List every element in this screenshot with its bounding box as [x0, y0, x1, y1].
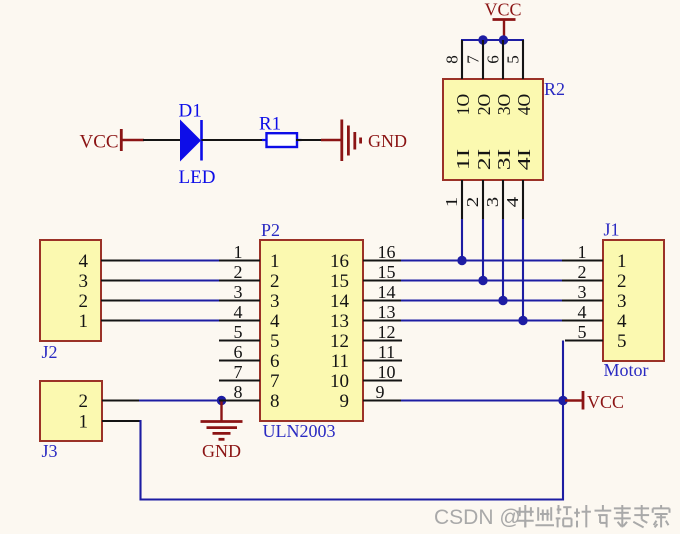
svg-text:3O: 3O: [494, 94, 514, 116]
svg-text:3: 3: [617, 291, 627, 312]
junction P2.8 / J3.2 / GND: [217, 396, 226, 405]
R2 pin 3 (bottom stub): [502, 180, 504, 219]
R2 pin name 1I: [453, 149, 473, 171]
svg-text:7: 7: [270, 371, 280, 392]
P2 pin name 5 (inside): [270, 331, 280, 352]
svg-text:6: 6: [484, 55, 503, 64]
P2 pin number 11 (outside): [378, 342, 395, 362]
P2 pin name 14 (inside): [330, 291, 350, 312]
J3 pin name 1: [79, 411, 89, 432]
svg-text:1O: 1O: [453, 94, 473, 116]
R2 pin name 4I: [514, 149, 534, 171]
J1 pin 5 stub: [565, 339, 603, 341]
svg-text:8: 8: [234, 382, 243, 402]
R2 pin name 3I: [494, 149, 514, 171]
wire VCC to D1 anode: [143, 139, 181, 141]
junction R2 pin 2 net: [478, 276, 487, 285]
svg-text:1I: 1I: [453, 149, 473, 171]
junction at R2 pin 7: [478, 35, 487, 44]
svg-text:2: 2: [270, 271, 280, 292]
P2 pin number 1 (outside): [234, 242, 243, 262]
watermark text (CJK glyphs approximated): [517, 505, 670, 527]
power port VCC (top, net VCC): [484, 0, 521, 40]
svg-text:1: 1: [617, 251, 627, 272]
svg-text:14: 14: [378, 282, 396, 302]
P2 pin name 2 (inside): [270, 271, 280, 292]
connector J1 body: [603, 240, 664, 361]
R2 pin 1 (bottom stub): [461, 180, 463, 219]
J1 pin 2 stub: [562, 279, 603, 281]
J1 pin number 3 (outside): [578, 282, 587, 302]
P2 pin number 12 (outside): [378, 322, 396, 342]
svg-text:VCC: VCC: [484, 0, 521, 20]
svg-text:6: 6: [234, 342, 243, 362]
svg-text:GND: GND: [368, 131, 407, 151]
wire from R2 pin 3 down to net row: [502, 219, 504, 301]
P2 pin name 9 (inside): [340, 391, 350, 412]
J1 pin name 3 (inside): [617, 291, 627, 312]
svg-text:2: 2: [234, 262, 243, 282]
svg-text:4: 4: [79, 251, 89, 272]
P2 pin number 4 (outside): [234, 302, 243, 322]
P2 left stub pin 1: [219, 259, 260, 261]
J1 pin 1 stub: [562, 259, 603, 261]
P2 pin name 10 (inside): [330, 371, 349, 392]
J2 pin name 2: [79, 291, 89, 312]
wire from R2 pin 1 down to net row: [461, 219, 463, 261]
svg-text:1: 1: [234, 242, 243, 262]
R2 pin 8 (top stub): [461, 40, 463, 79]
R2 pin number 1: [442, 197, 461, 208]
svg-text:15: 15: [330, 271, 349, 292]
R2 pin number 6: [484, 55, 503, 64]
svg-text:VCC: VCC: [587, 392, 624, 412]
P2 pin name 6 (inside): [270, 351, 280, 372]
svg-text:R2: R2: [544, 79, 565, 99]
svg-text:2: 2: [617, 271, 627, 292]
P2 pin number 9 (outside): [376, 382, 385, 402]
junction R2 pin 1 net: [457, 256, 466, 265]
wire P2.13 to J1.4: [401, 319, 563, 321]
P2 pin number 6 (outside): [234, 342, 243, 362]
P2 left stub pin 8: [219, 399, 260, 401]
R2 pin name 2I: [474, 149, 494, 171]
svg-text:3: 3: [483, 197, 502, 208]
svg-text:5: 5: [504, 55, 523, 64]
R2 pin number 2: [463, 197, 482, 208]
svg-text:9: 9: [376, 382, 385, 402]
J1 pin name 5 (inside): [617, 331, 627, 352]
svg-text:2: 2: [578, 262, 587, 282]
svg-text:GND: GND: [202, 441, 241, 461]
P2 left stub pin 6: [219, 359, 260, 361]
P2 pin number 14 (outside): [378, 282, 396, 302]
svg-text:1: 1: [270, 251, 280, 272]
svg-text:LED: LED: [179, 167, 216, 188]
svg-text:Motor: Motor: [604, 360, 649, 380]
svg-text:13: 13: [330, 311, 349, 332]
P2 pin number 15 (outside): [378, 262, 396, 282]
svg-text:11: 11: [331, 351, 349, 372]
svg-text:J2: J2: [42, 342, 58, 362]
P2 pin number 8 (outside): [234, 382, 243, 402]
svg-text:1: 1: [79, 311, 89, 332]
svg-text:8: 8: [443, 55, 462, 64]
svg-text:5: 5: [617, 331, 627, 352]
svg-text:ULN2003: ULN2003: [263, 421, 336, 441]
R2 pin number 3: [483, 197, 502, 208]
svg-text:13: 13: [378, 302, 396, 322]
svg-text:6: 6: [270, 351, 280, 372]
J3 pin name 2: [79, 391, 89, 412]
svg-text:R1: R1: [259, 114, 281, 135]
R2 pin name 4O: [514, 94, 534, 116]
J2 pin name 1: [79, 311, 89, 332]
P2 pin name 12 (inside): [330, 331, 349, 352]
svg-text:4: 4: [234, 302, 243, 322]
svg-text:3: 3: [578, 282, 587, 302]
P2 pin name 4 (inside): [270, 311, 280, 332]
R2 pin 2 (bottom stub): [482, 180, 484, 219]
label GND (below P2): [202, 441, 241, 461]
label D1 designator: [179, 101, 202, 122]
P2 right stub pin 12: [363, 339, 402, 341]
svg-text:2: 2: [463, 197, 482, 208]
wire P2.14 to J1.3: [401, 299, 563, 301]
R2 pin name 3O: [494, 94, 514, 116]
svg-text:D1: D1: [179, 101, 202, 122]
P2 right stub pin 11: [363, 359, 402, 361]
svg-text:4: 4: [270, 311, 280, 332]
J1 pin number 4 (outside): [578, 302, 587, 322]
J1 pin number 1 (outside): [578, 242, 587, 262]
label R2 designator: [544, 79, 565, 99]
resistor network R2 body: [443, 79, 543, 180]
label J1 designator: [604, 220, 620, 240]
svg-text:7: 7: [464, 55, 483, 64]
svg-text:1: 1: [79, 411, 89, 432]
R2 pin number 7: [464, 55, 483, 64]
R2 pin 5 (top stub): [522, 40, 524, 79]
diode D1 LED symbol: [180, 120, 202, 162]
J1 pin number 5 (outside): [578, 322, 587, 342]
svg-text:1: 1: [442, 197, 461, 208]
svg-text:5: 5: [234, 322, 243, 342]
wire P2.16 to J1.1: [401, 259, 563, 261]
P2 pin number 10 (outside): [378, 362, 396, 382]
P2 pin name 13 (inside): [330, 311, 349, 332]
resistor R1 body: [262, 133, 302, 147]
wire J2.4 to P2.1: [140, 259, 220, 261]
J2 pin name 3: [79, 271, 89, 292]
J1 pin name 2 (inside): [617, 271, 627, 292]
P2 pin number 2 (outside): [234, 262, 243, 282]
wire from R2 pin 2 down to net row: [482, 219, 484, 281]
ground GND (LED branch, horizontal earth): [342, 120, 361, 162]
P2 right stub pin 10: [363, 379, 402, 381]
svg-text:3: 3: [79, 271, 89, 292]
svg-text:J1: J1: [604, 220, 620, 240]
P2 pin name 3 (inside): [270, 291, 280, 312]
wire J3.1 down: [139, 420, 141, 501]
svg-text:4: 4: [617, 311, 627, 332]
P2 pin name 15 (inside): [330, 271, 349, 292]
P2 right stub pin 15: [363, 279, 402, 281]
svg-text:3: 3: [234, 282, 243, 302]
svg-text:5: 5: [578, 322, 587, 342]
junction R2 pin 3 net: [498, 296, 507, 305]
P2 left stub pin 5: [219, 339, 260, 341]
svg-text:15: 15: [378, 262, 396, 282]
svg-text:3: 3: [270, 291, 280, 312]
svg-text:9: 9: [340, 391, 350, 412]
svg-text:14: 14: [330, 291, 350, 312]
P2 pin name 11 (inside): [331, 351, 349, 372]
svg-text:J3: J3: [42, 441, 58, 461]
label LED value: [179, 167, 216, 188]
R2 pin name 1O: [453, 94, 473, 116]
watermark CSDN: [434, 506, 521, 529]
wire bottom run J3.1 to VCC net: [140, 498, 565, 500]
J1 pin 3 stub: [562, 299, 603, 301]
svg-text:10: 10: [378, 362, 396, 382]
R2 pin 4 (bottom stub): [522, 180, 524, 219]
wire D1 cathode to R1: [202, 139, 268, 141]
R2 pin 6 (top stub): [502, 40, 504, 79]
P2 pin name 16 (inside): [330, 251, 349, 272]
wire J2.1 to P2.4: [140, 319, 220, 321]
svg-text:8: 8: [270, 391, 280, 412]
P2 right stub pin 13: [363, 319, 402, 321]
J2 pin name 4: [79, 251, 89, 272]
junction VCC net (P2.9 / J1.5 / bottom run): [558, 396, 567, 405]
R2 pin number 8: [443, 55, 462, 64]
P2 left stub pin 2: [219, 279, 260, 281]
svg-text:16: 16: [378, 242, 396, 262]
label P2 designator: [261, 220, 280, 240]
P2 right stub pin 9: [363, 399, 402, 401]
P2 pin name 1 (inside): [270, 251, 280, 272]
svg-text:4O: 4O: [514, 94, 534, 116]
wire up to VCC junction: [562, 400, 564, 501]
J2 pin 3 stub: [101, 279, 141, 281]
R2 pin name 2O: [474, 94, 494, 116]
P2 pin number 7 (outside): [234, 362, 243, 382]
svg-text:1: 1: [578, 242, 587, 262]
label J2 designator: [42, 342, 58, 362]
svg-text:12: 12: [330, 331, 349, 352]
label GND (LED branch): [368, 131, 407, 151]
R2 pin 7 (top stub): [482, 40, 484, 79]
svg-text:10: 10: [330, 371, 349, 392]
svg-text:2: 2: [79, 391, 89, 412]
wire R1 to GND: [296, 139, 341, 141]
J3 pin 1 stub: [102, 420, 142, 422]
connector J2 body: [40, 240, 101, 341]
svg-text:2: 2: [79, 291, 89, 312]
power port VCC (right): [565, 391, 624, 412]
P2 pin number 3 (outside): [234, 282, 243, 302]
wire J2.2 to P2.3: [140, 299, 220, 301]
J2 pin 2 stub: [101, 299, 141, 301]
label ULN2003 value: [263, 421, 336, 441]
P2 left stub pin 3: [219, 299, 260, 301]
P2 pin name 7 (inside): [270, 371, 280, 392]
wire J1.5 corner down: [562, 341, 564, 402]
IC P2 ULN2003 body: [260, 240, 363, 421]
P2 right stub pin 16: [363, 259, 402, 261]
P2 left stub pin 4: [219, 319, 260, 321]
wire P2.9 to VCC junction: [401, 399, 563, 401]
svg-text:11: 11: [378, 342, 395, 362]
label Motor value: [604, 360, 649, 380]
connector J3 body: [40, 381, 102, 441]
wire net VCC horizontal above R2: [461, 39, 524, 41]
P2 left stub pin 7: [219, 379, 260, 381]
wire J2.3 to P2.2: [140, 279, 220, 281]
svg-text:2I: 2I: [474, 149, 494, 171]
svg-text:4: 4: [578, 302, 587, 322]
R2 pin number 4: [503, 196, 522, 207]
label R1 designator: [259, 114, 281, 135]
wire J3.2 to P2.8 (GND net): [139, 399, 222, 401]
P2 pin name 8 (inside): [270, 391, 280, 412]
svg-text:3I: 3I: [494, 149, 514, 171]
power port VCC (left, LED branch): [80, 129, 145, 153]
P2 pin number 16 (outside): [378, 242, 396, 262]
P2 pin number 13 (outside): [378, 302, 396, 322]
svg-text:5: 5: [270, 331, 280, 352]
J1 pin name 4 (inside): [617, 311, 627, 332]
ground GND symbol below P2 pin 8: [201, 401, 243, 440]
svg-text:2O: 2O: [474, 94, 494, 116]
svg-text:CSDN @: CSDN @: [434, 506, 521, 529]
J2 pin 4 stub: [101, 259, 141, 261]
svg-text:7: 7: [234, 362, 243, 382]
J1 pin number 2 (outside): [578, 262, 587, 282]
svg-text:16: 16: [330, 251, 349, 272]
svg-text:VCC: VCC: [80, 132, 119, 153]
J1 pin name 1 (inside): [617, 251, 627, 272]
junction at R2 pin 6: [499, 35, 508, 44]
svg-text:12: 12: [378, 322, 396, 342]
label J3 designator: [42, 441, 58, 461]
junction R2 pin 4 net: [518, 316, 527, 325]
svg-text:4: 4: [503, 196, 522, 207]
J1 pin 4 stub: [562, 319, 603, 321]
svg-text:4I: 4I: [514, 149, 534, 171]
R2 pin number 5: [504, 55, 523, 64]
J2 pin 1 stub: [101, 319, 141, 321]
wire from R2 pin 4 down to net row: [522, 219, 524, 321]
P2 right stub pin 14: [363, 299, 402, 301]
svg-text:P2: P2: [261, 220, 280, 240]
P2 pin number 5 (outside): [234, 322, 243, 342]
J3 pin 2 stub: [102, 399, 140, 401]
wire P2.15 to J1.2: [401, 279, 563, 281]
